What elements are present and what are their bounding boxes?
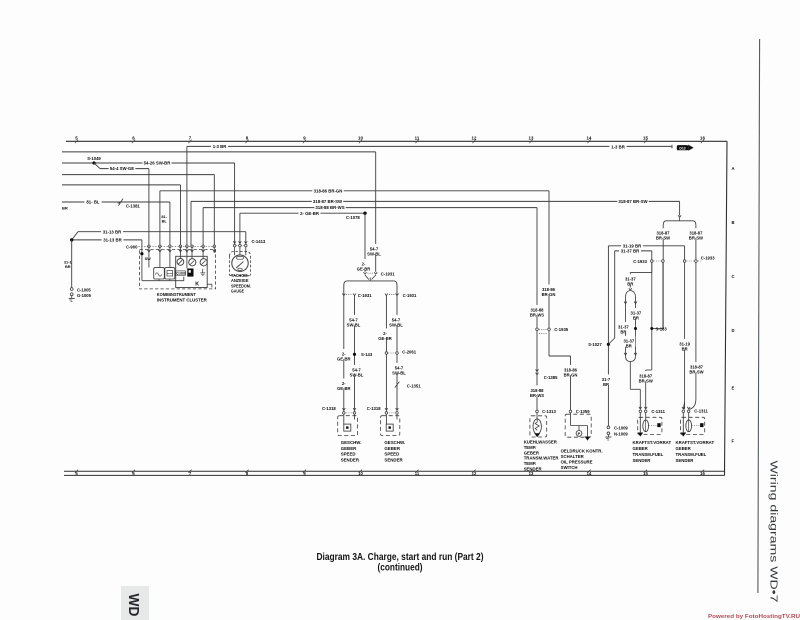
svg-text:SENDER: SENDER (676, 458, 695, 463)
wire 31-37 BR (615, 250, 652, 252)
labels on 318-88 / 318-86 risers (529, 305, 544, 316)
svg-text:GE-BR: GE-BR (378, 336, 392, 341)
svg-text:SENDER: SENDER (524, 466, 543, 471)
loop wire left (625, 297, 627, 356)
wire riser x191 (190, 201, 192, 246)
speedometer gauge (232, 255, 248, 271)
svg-text:BR: BR (627, 282, 633, 287)
connector C-1381 (in-line break) (119, 199, 124, 206)
svg-text:BL: BL (162, 219, 168, 224)
gauge circle 3 (200, 259, 207, 266)
svg-text:GEBER: GEBER (384, 446, 400, 451)
svg-text:BR-SW: BR-SW (689, 370, 703, 375)
svg-text:BR-GN: BR-GN (564, 372, 578, 377)
svg-text:BR: BR (603, 382, 609, 387)
svg-text:TRANSM.WATER: TRANSM.WATER (524, 456, 560, 461)
svg-text:S-183: S-183 (656, 327, 668, 332)
svg-text:C-1351: C-1351 (407, 383, 421, 388)
connector C-1413 (233, 241, 236, 243)
svg-text:C-1931: C-1931 (358, 293, 372, 298)
ground wire 31-1 BR (71, 240, 73, 288)
cluster internal ground (202, 269, 204, 273)
svg-text:C-1311: C-1311 (651, 409, 665, 414)
svg-text:S-1027: S-1027 (588, 342, 602, 347)
wire to fuel sender 1 right pin (646, 369, 652, 371)
svg-text:Diagram 3A. Charge, start and: Diagram 3A. Charge, start and run (Part … (317, 552, 484, 563)
connector N-1009 (607, 432, 610, 435)
svg-text:14: 14 (587, 136, 592, 141)
svg-text:C-1313: C-1313 (542, 409, 556, 414)
svg-text:G-1005: G-1005 (77, 293, 92, 298)
splice S-183 (662, 262, 664, 328)
wire riser 1-3 BR to C-900 (186, 146, 188, 246)
wire riser x245.8 to speedo (245, 232, 247, 245)
svg-text:31-13 BR: 31-13 BR (103, 229, 122, 234)
svg-text:K: K (195, 281, 199, 287)
arrow terminal D13 (677, 145, 689, 150)
wire bus line 5 (62, 184, 181, 186)
wire riser 54-4 to C-900 (148, 169, 150, 247)
wire risers fuel sender 2 (683, 402, 684, 409)
svg-text:SPEEDOM.: SPEEDOM. (231, 283, 251, 288)
fuel sender 2 box (681, 417, 705, 434)
wire riser 318-86 right (548, 191, 550, 329)
svg-text:D: D (732, 328, 735, 333)
svg-text:15: 15 (643, 136, 648, 141)
oil pressure switch box (565, 414, 591, 437)
svg-text:SW-BL: SW-BL (389, 322, 403, 327)
svg-text:SENDER: SENDER (633, 458, 652, 463)
splice at left (70, 238, 73, 241)
svg-text:2- GE-BR: 2- GE-BR (300, 211, 320, 216)
svg-text:BR-WS: BR-WS (530, 393, 544, 398)
wire 318-87 branch left (662, 225, 664, 328)
svg-text:14: 14 (587, 471, 592, 476)
svg-text:C-1005: C-1005 (77, 287, 91, 292)
svg-text:INSTRUMENT CLUSTER: INSTRUMENT CLUSTER (157, 297, 208, 302)
indicator box 2 (165, 268, 175, 279)
wire from C-1078 down (364, 213, 366, 272)
fuel pump icon (187, 269, 193, 277)
splice S-143 (353, 353, 356, 356)
svg-text:GESCHW.: GESCHW. (384, 440, 405, 445)
svg-text:BR: BR (620, 329, 626, 334)
top border ruler (66, 140, 727, 142)
connector C-1359 (569, 410, 572, 413)
wire speed sender 2 right (396, 286, 398, 412)
svg-text:1-3 BR: 1-3 BR (611, 145, 626, 150)
wire speed sender 1 left (343, 286, 345, 412)
instrument cluster dashed box (140, 249, 216, 289)
svg-text:54-26 SW-BR: 54-26 SW-BR (144, 161, 172, 166)
svg-text:C-1078: C-1078 (346, 215, 360, 220)
svg-text:SW-BL: SW-BL (392, 370, 406, 375)
wire 31-19 to fuel sender 2 (684, 262, 686, 409)
svg-text:KRAFTST.VORRAT: KRAFTST.VORRAT (633, 440, 672, 445)
svg-text:13: 13 (529, 136, 534, 141)
connector C-1933 left (651, 260, 654, 263)
wire 1-3 BR top feed (187, 145, 672, 147)
speed sender 2 box (381, 416, 400, 436)
svg-text:C-1359: C-1359 (576, 409, 590, 414)
WD tab box (121, 586, 149, 620)
svg-text:TRANSM.FUEL: TRANSM.FUEL (633, 452, 664, 457)
wire speed sender 1 right (354, 295, 356, 412)
31-37 loop subcircuit (651, 262, 653, 272)
svg-text:SW-BL: SW-BL (367, 251, 381, 256)
svg-text:SW-BL: SW-BL (350, 372, 364, 377)
svg-text:P: P (578, 431, 581, 436)
svg-text:GEBER: GEBER (341, 446, 357, 451)
svg-text:BR-SW: BR-SW (639, 378, 653, 383)
svg-text:B: B (732, 220, 735, 225)
wire 318-86 jog to switch (548, 331, 550, 356)
connector C-1313 (536, 410, 539, 413)
wire speed sender 2 left (385, 295, 387, 412)
svg-text:C-900: C-900 (126, 245, 138, 250)
connector C-2061 (385, 352, 388, 355)
connector C-1009 (607, 426, 610, 429)
svg-text:C-1385: C-1385 (544, 375, 558, 380)
svg-text:C-2061: C-2061 (402, 350, 416, 355)
svg-text:10: 10 (358, 471, 363, 476)
indicator box 1 (154, 268, 165, 279)
speed sender 1 box (338, 416, 358, 436)
svg-text:E: E (732, 386, 735, 391)
svg-text:KRAFTST.VORRAT: KRAFTST.VORRAT (676, 440, 715, 445)
svg-text:C-1311: C-1311 (694, 408, 708, 413)
connector C-1933 right (683, 260, 686, 263)
svg-text:WD: WD (125, 594, 142, 617)
svg-text:BR: BR (65, 264, 71, 269)
svg-text:C-1318: C-1318 (367, 406, 381, 411)
svg-text:SPEED: SPEED (341, 452, 356, 457)
svg-text:318-87 BR-SW: 318-87 BR-SW (313, 199, 343, 204)
svg-text:Powered by FotoHostingTV.RU: Powered by FotoHostingTV.RU (708, 614, 800, 620)
wire 318-87 to fuel sender 2 (695, 262, 697, 399)
svg-text:OIL PRESSURE: OIL PRESSURE (561, 460, 593, 465)
svg-text:(continued): (continued) (378, 563, 423, 574)
label 2- GE-BR on riser x365 (357, 259, 370, 270)
wire 31-13 BR upper (78, 231, 246, 233)
wire riser x375.7 down to C-1931 (375, 152, 377, 272)
svg-text:C-1931: C-1931 (381, 271, 395, 276)
svg-text:SENDER: SENDER (384, 457, 403, 462)
wire riser 54-26 to speedo (234, 163, 236, 244)
gauge circle 1 (177, 259, 184, 266)
wire 318-88 BR-WS (203, 207, 537, 209)
svg-text:81- BL: 81- BL (86, 200, 100, 205)
svg-text:ANZEIGE: ANZEIGE (231, 278, 249, 283)
svg-text:GEBER: GEBER (676, 446, 692, 451)
svg-text:TACHOM.: TACHOM. (231, 273, 249, 278)
wire 31-19 BR (608, 245, 684, 247)
svg-text:BR: BR (633, 315, 639, 320)
svg-text:GAUGE: GAUGE (231, 289, 244, 294)
svg-text:BR: BR (626, 343, 632, 348)
fuel sender 1 box (638, 417, 662, 434)
svg-text:31-13 BR: 31-13 BR (103, 238, 122, 243)
svg-text:C-1933: C-1933 (633, 259, 647, 264)
split brace to two senders (365, 275, 369, 280)
svg-text:GEBER: GEBER (524, 450, 540, 455)
svg-text:C-1318: C-1318 (322, 406, 336, 411)
splice C-1078 (363, 212, 366, 215)
svg-text:11: 11 (415, 471, 420, 476)
svg-text:SENDER: SENDER (341, 457, 360, 462)
svg-text:Wiring diagrams WD•7: Wiring diagrams WD•7 (768, 461, 779, 603)
wire labels (347, 315, 360, 326)
connector C-1005 (70, 288, 73, 291)
svg-text:31-37 BR: 31-37 BR (621, 249, 640, 254)
svg-text:C: C (732, 274, 735, 279)
wire 318-88 down to C-1313 (536, 331, 538, 410)
svg-text:TEMP.: TEMP. (524, 461, 537, 466)
wire 54-26 SW-BR (62, 162, 235, 164)
svg-text:C≡000: C≡000 (176, 272, 186, 276)
wire riser 318-87 right, arrow into split (679, 201, 681, 215)
gauge circle 2 (189, 259, 196, 266)
splice S-1027 (607, 343, 610, 346)
svg-text:TEMP.: TEMP. (524, 445, 537, 450)
svg-text:GE-BR: GE-BR (337, 386, 351, 391)
svg-text:A: A (732, 166, 735, 171)
svg-text:11: 11 (415, 136, 420, 141)
svg-text:1-3 BR: 1-3 BR (213, 144, 228, 149)
svg-text:GE-BR: GE-BR (357, 266, 371, 271)
odometer box (175, 271, 185, 275)
label 54-7 SW-BL on riser x375.7 (368, 244, 381, 255)
svg-text:16: 16 (700, 471, 705, 476)
svg-text:C-1413: C-1413 (252, 239, 266, 244)
svg-text:N-1009: N-1009 (614, 432, 628, 437)
svg-text:D13: D13 (679, 146, 685, 150)
cluster internal wires (141, 246, 143, 280)
svg-text:TRANSM.FUEL: TRANSM.FUEL (676, 452, 707, 457)
svg-text:C-1933: C-1933 (701, 255, 715, 260)
svg-text:12: 12 (472, 471, 477, 476)
wire riser x214.3 (213, 175, 215, 247)
wire riser 318-88 right (536, 208, 538, 328)
svg-text:10: 10 (358, 136, 363, 141)
svg-text:SCHALTER: SCHALTER (561, 454, 585, 459)
wire 31-13 BR lower (72, 239, 142, 241)
wire riser 2-GE-BR to speedo (239, 213, 241, 244)
right sidebar rule (758, 39, 760, 593)
cluster inner instrument box (176, 256, 208, 287)
svg-text:13: 13 (529, 471, 534, 476)
connector C-1931 inline (364, 272, 367, 274)
svg-text:SWITCH: SWITCH (561, 465, 578, 470)
svg-text:318-88 BR-WS: 318-88 BR-WS (315, 205, 344, 210)
svg-text:GESCHW.: GESCHW. (341, 440, 362, 445)
svg-text:SW-BL: SW-BL (347, 322, 361, 327)
wire fuel sender 1 left pin (639, 389, 641, 409)
wire 318-87 branch right (695, 225, 697, 259)
svg-text:BR-WS: BR-WS (530, 312, 544, 317)
wire 54-4 SW-GE (94, 163, 100, 169)
wire 2- GE-BR (240, 212, 365, 214)
cluster ground bus (142, 280, 184, 282)
ground (71, 296, 73, 299)
wire 318-87 BR-SW (191, 200, 680, 202)
svg-text:BR-SW: BR-SW (656, 236, 670, 241)
svg-text:OELDRUCK KONTR.: OELDRUCK KONTR. (561, 448, 603, 453)
coolant temp sender box (530, 416, 547, 437)
svg-text:S-143: S-143 (361, 352, 373, 357)
svg-text:S-1049: S-1049 (87, 156, 101, 161)
wire riser 81-BL to C-900 (169, 202, 171, 246)
connector C-900 row (139, 245, 217, 247)
svg-text:C-1009: C-1009 (614, 426, 628, 431)
svg-text:BR-GN: BR-GN (542, 292, 556, 297)
wire riser x180.5 (180, 185, 182, 246)
svg-text:BR: BR (682, 346, 688, 351)
connector C-1935 (536, 328, 539, 331)
svg-text:KOMBIINSTRUMENT: KOMBIINSTRUMENT (157, 292, 196, 297)
svg-text:16: 16 (700, 136, 705, 141)
right frame edge (725, 141, 728, 475)
svg-text:C-1935: C-1935 (554, 327, 568, 332)
svg-text:318-87 BR-SW: 318-87 BR-SW (618, 199, 648, 204)
svg-text:15: 15 (643, 471, 648, 476)
wire riser x141.9 (141, 240, 143, 246)
connector C-1351 (in-line break) (395, 382, 400, 388)
svg-text:GE-BR: GE-BR (337, 356, 351, 361)
splice S-1049 (92, 161, 95, 164)
connector G-1005 (70, 293, 73, 296)
svg-text:BR-SW: BR-SW (689, 236, 703, 241)
svg-text:SPEED: SPEED (384, 452, 399, 457)
svg-text:BR: BR (62, 206, 68, 211)
svg-text:C-1381: C-1381 (126, 204, 140, 209)
loop wire right (635, 297, 637, 356)
wire riser x203.1 (202, 208, 204, 247)
bottom border ruler (64, 470, 725, 472)
svg-text:318-86 BR-GN: 318-86 BR-GN (314, 188, 343, 193)
svg-text:54-4 SW-GE: 54-4 SW-GE (110, 166, 134, 171)
svg-text:C-1931: C-1931 (403, 293, 417, 298)
wire bus line 2 (62, 151, 376, 153)
wire bus line 4 (62, 174, 214, 176)
speedometer bracket (230, 252, 251, 257)
wire 318-86 BR-GN (160, 190, 549, 192)
svg-text:GEBER: GEBER (633, 446, 649, 451)
sidebar title Wiring diagrams WD-7 (768, 461, 779, 603)
wire 81-BL (62, 201, 170, 203)
svg-text:SW: SW (145, 257, 152, 261)
wire 31-7 BR ground leg (607, 246, 609, 426)
svg-text:KUEHLWASSER: KUEHLWASSER (524, 440, 558, 445)
svg-text:F: F (732, 439, 735, 444)
connector C-1931 row arrows (342, 294, 345, 296)
wire riser x159.9 (159, 191, 161, 247)
svg-text:12: 12 (472, 136, 477, 141)
